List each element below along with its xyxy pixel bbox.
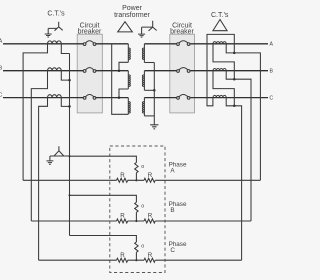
phase line a (breaker to right bus) bbox=[190, 43, 268, 45]
svg-text:C: C bbox=[170, 247, 175, 254]
junction operating coil (phase B) bbox=[135, 220, 137, 222]
svg-text:R: R bbox=[148, 252, 153, 259]
wire CT c right lead to delta node c bbox=[226, 98, 234, 106]
wire CT A left secondary lead (to relay) bbox=[23, 44, 47, 181]
phase line a (transformer secondary to breaker) bbox=[144, 43, 176, 45]
wire CT neutral to ground (bottom left) bbox=[50, 156, 70, 161]
svg-text:transformer: transformer bbox=[114, 12, 150, 19]
wire operating-coil feed phase A bbox=[70, 156, 137, 162]
circuit breaker pole A (right box) bbox=[177, 43, 180, 46]
ground (transformer wye glyph) bbox=[138, 34, 145, 37]
wire CT B left secondary lead (to neutral bus) bbox=[61, 71, 69, 80]
relay wire phase A bbox=[23, 179, 260, 181]
wire operating coil to wire (phase A) bbox=[135, 173, 137, 181]
transformer wye glyph bbox=[149, 21, 157, 31]
wire CT neutral bus (left) bbox=[69, 54, 71, 236]
junction neutral bus feed A bbox=[69, 155, 71, 157]
wire relay tap phase a (right) bbox=[234, 53, 260, 180]
circuit breaker box (left, 3-pole) bbox=[77, 34, 102, 113]
junction CT C neutral bbox=[68, 105, 71, 108]
wire primary B bottom to line C bbox=[119, 89, 128, 98]
circuit breaker pole C (right box) bbox=[177, 97, 180, 100]
wire CT b right lead to delta node b bbox=[226, 71, 234, 80]
left CT wye glyph bbox=[55, 22, 63, 31]
phase line C (left bus to breaker) bbox=[3, 97, 83, 99]
svg-text:R: R bbox=[148, 172, 153, 179]
CT B left (primary coil) bbox=[48, 68, 62, 71]
wire CT C left secondary lead (to neutral bus) bbox=[61, 98, 69, 107]
CT neutral wye glyph bbox=[54, 146, 64, 156]
phase line c (breaker to right bus) bbox=[190, 97, 268, 99]
circuit breaker pole A (left box) bbox=[83, 43, 86, 46]
relay wire phase B bbox=[31, 220, 251, 222]
wire CT C left secondary lead (to relay) bbox=[39, 98, 48, 261]
wire secondary a bottom to neutral bbox=[144, 62, 154, 64]
transformer secondary winding a bbox=[143, 44, 145, 63]
junction operating coil (phase C) bbox=[135, 259, 137, 261]
phase line C (breaker to transformer primary) bbox=[96, 97, 129, 99]
right CT delta glyph bbox=[213, 20, 227, 31]
svg-text:o: o bbox=[141, 204, 144, 210]
phase line b (breaker to right bus) bbox=[190, 70, 268, 72]
wire delta return (primary C bottom to line A) bbox=[112, 44, 129, 115]
junction delta A-B on line B bbox=[118, 69, 121, 72]
wire wye neutral to ground bbox=[153, 63, 155, 125]
transformer primary winding A bbox=[127, 44, 129, 63]
wire CT a right lead to delta node a bbox=[226, 44, 234, 53]
CT C left (primary coil) bbox=[48, 95, 62, 98]
svg-text:C: C bbox=[269, 96, 273, 102]
wire relay tap phase b (right) bbox=[234, 79, 251, 221]
relay restraint coil R right (phase C) bbox=[144, 258, 155, 262]
phase line A (breaker to transformer primary) bbox=[96, 43, 129, 45]
CT a right (primary coil) bbox=[213, 42, 226, 44]
svg-text:breaker: breaker bbox=[78, 29, 102, 36]
phase line B (left bus to breaker) bbox=[3, 70, 83, 72]
svg-text:R: R bbox=[120, 213, 125, 220]
relay restraint coil R left (phase B) bbox=[117, 219, 128, 223]
svg-text:C: C bbox=[0, 92, 2, 98]
transformer delta glyph bbox=[118, 22, 133, 32]
svg-text:B: B bbox=[269, 69, 273, 75]
svg-text:Power: Power bbox=[122, 5, 143, 12]
relay wire phase C bbox=[39, 259, 242, 261]
wire CT b start to delta node c bbox=[213, 71, 234, 106]
junction operating coil (phase A) bbox=[135, 179, 137, 181]
junction wye neutral bbox=[153, 89, 156, 92]
wire primary A bottom to line B bbox=[119, 62, 128, 70]
transformer secondary winding c bbox=[143, 98, 145, 116]
circuit breaker box (right, 3-pole) bbox=[170, 34, 195, 113]
relay restraint coil R right (phase B) bbox=[144, 219, 155, 223]
circuit breaker pole C (left box) bbox=[83, 97, 86, 100]
svg-text:R: R bbox=[148, 213, 153, 220]
junction delta node c bbox=[233, 105, 236, 108]
svg-text:B: B bbox=[0, 65, 3, 71]
junction delta node a bbox=[233, 52, 236, 55]
svg-text:o: o bbox=[141, 164, 144, 170]
junction CT B neutral bbox=[68, 79, 71, 82]
phase line b (transformer secondary to breaker) bbox=[144, 70, 176, 72]
svg-text:A: A bbox=[0, 39, 3, 45]
circuit breaker pole B (right box) bbox=[177, 70, 180, 73]
svg-text:breaker: breaker bbox=[170, 29, 194, 36]
CT c right (primary coil) bbox=[213, 95, 226, 97]
left CT wye glyph ground arm bbox=[48, 28, 57, 33]
svg-text:C.T.’s: C.T.’s bbox=[211, 12, 229, 19]
relay operating coil O (phase C) bbox=[135, 242, 138, 252]
junction neutral bus feed B bbox=[69, 194, 71, 196]
circuit breaker pole B (left box) bbox=[83, 70, 86, 73]
wire secondary b bottom to neutral bbox=[144, 89, 154, 91]
phase line c (transformer secondary to breaker) bbox=[144, 97, 176, 99]
relay operating coil O (phase B) bbox=[135, 202, 138, 212]
wire CT A left secondary lead (to neutral bus) bbox=[61, 44, 69, 54]
svg-text:R: R bbox=[120, 172, 125, 179]
wire operating coil to wire (phase C) bbox=[135, 252, 137, 260]
relay restraint coil R right (phase A) bbox=[144, 178, 155, 182]
relay panel dashed box bbox=[110, 146, 165, 273]
svg-text:o: o bbox=[141, 243, 144, 249]
transformer secondary winding b bbox=[143, 71, 145, 91]
wire CT a start to delta node b bbox=[213, 44, 234, 79]
wire secondary c bottom to neutral bbox=[144, 115, 154, 117]
transformer primary winding B bbox=[127, 71, 129, 89]
wire relay tap phase c (right) bbox=[234, 106, 241, 260]
wire delta bridge (CT c finish over coil a) bbox=[207, 34, 234, 105]
relay restraint coil R left (phase A) bbox=[117, 178, 128, 182]
relay restraint coil R left (phase C) bbox=[117, 258, 128, 262]
transformer wye glyph ground arm bbox=[142, 27, 153, 34]
phase line B (breaker to transformer primary) bbox=[96, 70, 129, 72]
ground (CT neutral) bbox=[46, 161, 53, 164]
junction delta B-C on line C bbox=[118, 96, 121, 99]
wire operating-coil feed phase C bbox=[70, 236, 137, 243]
svg-text:C.T.’s: C.T.’s bbox=[47, 11, 65, 18]
relay operating coil O (phase A) bbox=[135, 163, 138, 173]
svg-text:A: A bbox=[269, 42, 273, 48]
CT A left (primary coil) bbox=[48, 41, 62, 44]
wire operating coil to wire (phase B) bbox=[135, 212, 137, 221]
transformer primary winding C bbox=[127, 98, 129, 115]
phase line A (left bus to breaker) bbox=[3, 43, 83, 45]
ground (transformer neutral) bbox=[150, 125, 158, 129]
wire CT B left secondary lead (to relay) bbox=[31, 71, 47, 221]
CT b right (primary coil) bbox=[213, 68, 226, 70]
svg-text:B: B bbox=[170, 207, 174, 214]
ground (left CT glyph) bbox=[45, 34, 52, 37]
svg-text:R: R bbox=[120, 252, 125, 259]
wire operating-coil feed phase B bbox=[70, 195, 137, 202]
junction delta node b bbox=[233, 78, 236, 81]
